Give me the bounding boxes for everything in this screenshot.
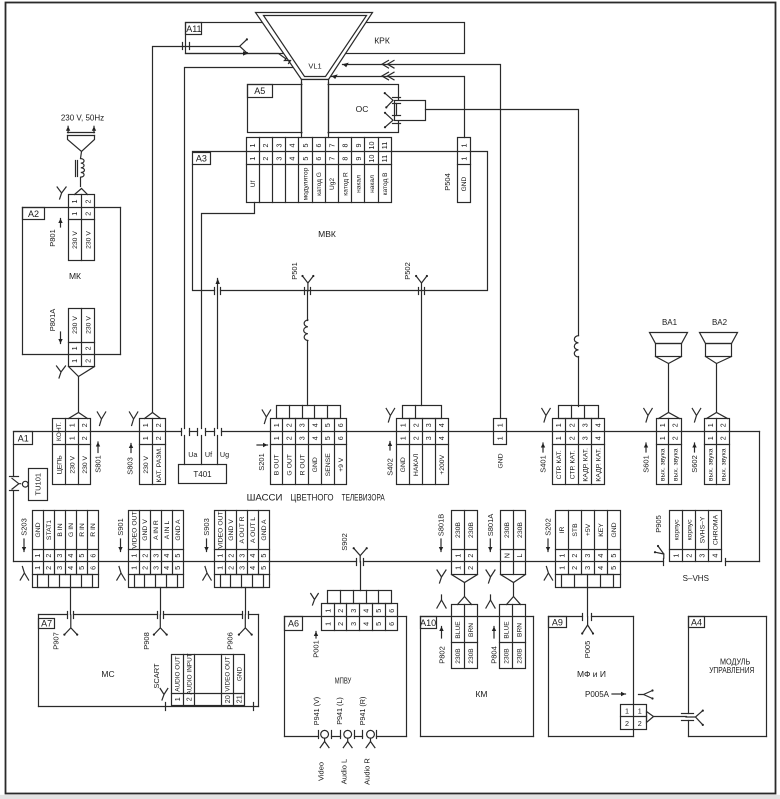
svg-text:G IN: G IN	[68, 523, 75, 537]
svg-text:2: 2	[466, 566, 475, 570]
label P005	[583, 641, 592, 659]
svg-text:5: 5	[301, 144, 310, 148]
svg-text:11: 11	[380, 155, 389, 162]
svg-text:GND: GND	[461, 176, 468, 191]
svg-text:2: 2	[285, 436, 294, 440]
svg-text:СТР. КАТ.: СТР. КАТ.	[569, 450, 576, 479]
S902 feedthrough bars	[357, 559, 364, 566]
svg-text:10: 10	[367, 155, 376, 163]
svg-text:GND V: GND V	[142, 519, 149, 541]
svg-text:VIDEO OUT: VIDEO OUT	[217, 511, 224, 548]
svg-text:1: 1	[272, 436, 281, 440]
connector fork left of S401	[542, 409, 550, 423]
svg-text:1: 1	[453, 554, 462, 558]
label P001 with arrow	[312, 632, 321, 658]
svg-text:4: 4	[248, 554, 257, 558]
svg-text:1: 1	[248, 144, 257, 148]
svg-text:GND: GND	[236, 667, 243, 682]
svg-text:2: 2	[567, 423, 576, 427]
connector fork right of S801	[97, 412, 105, 426]
svg-text:A IN L: A IN L	[164, 521, 171, 540]
merge triangle onto S803	[145, 413, 161, 419]
svg-text:VIDEO OUT: VIDEO OUT	[225, 656, 232, 691]
svg-text:B IN: B IN	[57, 523, 64, 536]
svg-text:4: 4	[362, 609, 371, 613]
svg-text:230В: 230В	[455, 648, 462, 664]
phono jack Audio R	[363, 730, 377, 747]
svg-text:+9 V: +9 V	[338, 457, 345, 472]
svg-text:KEY: KEY	[598, 523, 605, 537]
svg-text:2: 2	[44, 554, 53, 558]
scan strip	[0, 795, 780, 799]
svg-text:TU101: TU101	[34, 473, 43, 496]
connector S801 (mains to chassis)	[53, 419, 91, 485]
svg-text:A3: A3	[196, 153, 207, 163]
svg-text:4: 4	[66, 566, 75, 570]
svg-text:4: 4	[248, 566, 257, 570]
connector fork left of S202	[544, 567, 552, 581]
svg-text:8: 8	[341, 144, 350, 148]
svg-text:GND A: GND A	[261, 519, 268, 541]
svg-text:1: 1	[67, 436, 76, 440]
svg-text:GND: GND	[312, 457, 319, 472]
svg-text:2: 2	[154, 423, 163, 427]
svg-text:1: 1	[557, 554, 566, 558]
wire KPK bottom edge to anode (arrow)	[186, 51, 286, 58]
svg-text:ТЕЛЕВИЗОРА: ТЕЛЕВИЗОРА	[342, 492, 386, 503]
label A2	[23, 208, 45, 220]
svg-text:R OUT: R OUT	[299, 454, 306, 475]
svg-text:AUDIO OUT: AUDIO OUT	[175, 656, 182, 692]
svg-text:BRN: BRN	[468, 623, 475, 637]
wire Ua from anode line down to T401	[185, 68, 293, 465]
connector P802	[452, 605, 478, 669]
svg-text:BA1: BA1	[662, 318, 678, 327]
wire P502 to S402	[421, 291, 423, 406]
svg-text:A6: A6	[288, 619, 299, 629]
svg-text:1: 1	[130, 554, 139, 558]
connector P908 on A7 edge	[153, 612, 168, 636]
svg-text:S203: S203	[20, 518, 29, 536]
svg-text:5: 5	[301, 157, 310, 161]
svg-text:9: 9	[354, 157, 363, 161]
connector S201 (RGB to CRT board)	[271, 406, 347, 485]
svg-text:УПРАВЛЕНИЯ: УПРАВЛЕНИЯ	[709, 666, 754, 675]
label S201 with arrow	[257, 443, 268, 471]
label A4	[689, 617, 705, 628]
label P908	[142, 632, 151, 650]
svg-text:4: 4	[310, 436, 319, 440]
connector fork left of S201	[262, 410, 270, 424]
svg-text:P801: P801	[48, 229, 57, 247]
svg-text:P504: P504	[443, 173, 452, 191]
svg-text:5: 5	[173, 554, 182, 558]
svg-text:1: 1	[33, 554, 42, 558]
connector S602 (speaker BA2)	[705, 419, 730, 485]
fork pair S801A-P804	[486, 570, 495, 608]
svg-text:A OUT L: A OUT L	[250, 517, 257, 543]
svg-text:N: N	[502, 553, 511, 558]
merge triangle onto S801	[69, 413, 88, 419]
svg-text:3: 3	[55, 566, 64, 570]
svg-text:2: 2	[84, 346, 93, 350]
chassis right edge	[759, 432, 761, 562]
svg-text:5: 5	[374, 622, 383, 626]
svg-text:2: 2	[336, 622, 345, 626]
svg-text:S901: S901	[116, 518, 125, 536]
svg-text:2: 2	[285, 423, 294, 427]
wire P501 to S201 with inductor	[307, 291, 309, 406]
svg-text:3: 3	[698, 554, 707, 558]
connector fork at P801	[57, 187, 66, 199]
svg-text:SVHS–Y: SVHS–Y	[700, 516, 707, 543]
svg-text:1: 1	[459, 144, 468, 148]
connector S903 (AV out)	[215, 511, 270, 588]
svg-text:2: 2	[154, 436, 163, 440]
svg-text:1: 1	[706, 436, 715, 440]
svg-text:2: 2	[336, 609, 345, 613]
svg-text:8: 8	[341, 157, 350, 161]
svg-text:230В: 230В	[468, 648, 475, 664]
svg-text:P907: P907	[52, 632, 61, 650]
connector fork at TU101 tap	[12, 478, 21, 489]
wire P005A to A4	[654, 716, 687, 718]
block A9 MF i I (IF module)	[549, 617, 634, 737]
svg-text:КОНТ.: КОНТ.	[56, 422, 63, 441]
yoke connector cluster	[384, 92, 401, 128]
svg-text:1: 1	[248, 157, 257, 161]
connector P001	[322, 604, 398, 631]
svg-text:1: 1	[141, 423, 150, 427]
svg-text:2: 2	[638, 719, 642, 728]
svg-text:1: 1	[398, 436, 407, 440]
svg-text:МФ и И: МФ и И	[577, 670, 606, 679]
svg-text:2: 2	[140, 566, 149, 570]
svg-text:A9: A9	[552, 618, 563, 628]
svg-text:ЦЕПЬ: ЦЕПЬ	[56, 455, 63, 474]
svg-text:3: 3	[237, 566, 246, 570]
svg-text:T401: T401	[193, 470, 212, 479]
svg-text:6: 6	[387, 622, 396, 626]
feedthrough bars A3 bottom edge at Ug	[215, 288, 221, 295]
label P501	[290, 262, 299, 280]
feedthrough bars on KPK left edge	[183, 43, 190, 50]
connector fork inside A4	[686, 710, 704, 727]
svg-text:1: 1	[638, 707, 642, 716]
svg-text:6: 6	[88, 566, 97, 570]
svg-text:корпус: корпус	[687, 519, 694, 541]
svg-text:катод В: катод В	[382, 172, 389, 196]
svg-text:1: 1	[453, 566, 462, 570]
svg-text:2: 2	[261, 144, 270, 148]
block A7 MC (SCART board)	[39, 615, 259, 707]
svg-text:2: 2	[261, 157, 270, 161]
svg-text:P941 (L): P941 (L)	[335, 697, 344, 725]
svg-text:1: 1	[70, 359, 79, 363]
chassis bottom edge	[14, 561, 760, 563]
svg-text:A11: A11	[186, 24, 201, 34]
svg-text:P906: P906	[226, 632, 235, 650]
svg-text:2: 2	[685, 554, 694, 558]
label A11	[186, 23, 202, 35]
svg-text:3: 3	[580, 423, 589, 427]
svg-text:катод G: катод G	[316, 172, 323, 196]
svg-text:230 V: 230 V	[82, 455, 89, 473]
wire yoke to S401 via coil	[426, 110, 579, 407]
mains lead with fuse-choke	[76, 152, 85, 187]
svg-text:4: 4	[66, 554, 75, 558]
svg-text:5: 5	[609, 566, 618, 570]
svg-text:A1: A1	[18, 433, 29, 443]
svg-text:2: 2	[466, 554, 475, 558]
speaker BA2	[700, 318, 738, 412]
wire S801A to P804	[501, 575, 526, 605]
label S803 with arrow	[126, 444, 135, 475]
svg-text:6: 6	[314, 157, 323, 161]
svg-text:3: 3	[151, 554, 160, 558]
svg-text:6: 6	[314, 144, 323, 148]
yoke junction box	[395, 101, 426, 121]
inductor (ferrite bead) on yoke wire	[574, 336, 578, 357]
svg-text:МПВУ: МПВУ	[335, 676, 352, 685]
wire Ug from A3 to T401 (arrow up)	[216, 279, 220, 465]
svg-text:BLUE: BLUE	[455, 621, 462, 639]
label SCART with fork	[152, 663, 168, 700]
label A3	[193, 153, 211, 165]
svg-text:корпус: корпус	[673, 519, 680, 541]
svg-text:модулятор: модулятор	[303, 167, 310, 200]
svg-text:1: 1	[323, 622, 332, 626]
label A1	[14, 432, 33, 445]
bumps S402	[403, 406, 442, 419]
svg-text:4: 4	[437, 436, 446, 440]
label P801 with arrow	[48, 219, 63, 247]
svg-text:КАТ. РАЗМ.: КАТ. РАЗМ.	[156, 447, 163, 482]
svg-text:A7: A7	[41, 619, 52, 629]
connector SCART on A7	[172, 653, 245, 705]
chevron marks	[382, 60, 394, 68]
svg-text:вых. звука: вых. звука	[673, 448, 680, 481]
svg-text:2: 2	[411, 436, 420, 440]
svg-text:1: 1	[459, 157, 468, 161]
svg-text:6: 6	[336, 423, 345, 427]
svg-text:S401: S401	[539, 455, 548, 473]
svg-text:4: 4	[162, 566, 171, 570]
connector P801	[69, 195, 95, 261]
connector GND single pin	[494, 419, 507, 445]
connector fork left of S203	[20, 567, 28, 581]
svg-text:Uf: Uf	[205, 450, 212, 459]
label P504	[443, 173, 452, 191]
svg-text:2: 2	[226, 566, 235, 570]
svg-text:230 V: 230 V	[72, 231, 79, 249]
svg-text:1: 1	[216, 566, 225, 570]
label P906	[226, 632, 235, 650]
svg-text:5: 5	[323, 436, 332, 440]
svg-text:S801В: S801В	[437, 514, 446, 537]
svg-text:GND: GND	[497, 453, 504, 468]
block A3 MVK (video board) outline	[193, 152, 488, 291]
connector fork above P005A table	[639, 689, 654, 699]
label S801A with arrow	[486, 514, 495, 552]
connector P905 (S-VHS output)	[670, 511, 722, 562]
svg-text:4: 4	[288, 157, 297, 161]
block A4 control module	[689, 617, 767, 737]
connector S801B (mains switched)	[452, 511, 478, 575]
svg-text:5: 5	[77, 554, 86, 558]
svg-text:P005A: P005A	[585, 690, 610, 699]
wire S901 to P908	[160, 588, 162, 615]
fork pair S801B-P802	[437, 570, 446, 608]
label S902	[340, 533, 349, 551]
label P802 with arrow	[438, 627, 447, 664]
label S801 with arrow	[94, 442, 103, 473]
svg-text:P941 (R): P941 (R)	[358, 697, 367, 726]
label A7	[39, 619, 55, 629]
svg-text:A IN R: A IN R	[153, 520, 160, 540]
svg-text:3: 3	[237, 554, 246, 558]
label S-VHS	[683, 574, 709, 583]
svg-text:1: 1	[625, 707, 629, 716]
svg-text:4: 4	[288, 144, 297, 148]
svg-text:4: 4	[593, 423, 602, 427]
transformer T401	[179, 465, 227, 484]
svg-text:4: 4	[711, 554, 720, 558]
svg-text:11: 11	[380, 142, 389, 149]
svg-text:МВК: МВК	[318, 229, 336, 239]
svg-text:VL1: VL1	[308, 62, 321, 71]
svg-text:S803: S803	[126, 457, 135, 475]
svg-text:3: 3	[424, 436, 433, 440]
svg-text:21: 21	[235, 695, 244, 703]
svg-text:3: 3	[349, 622, 358, 626]
connector P501 on A3 bottom edge	[301, 275, 314, 295]
svg-text:VIDEO OUT: VIDEO OUT	[131, 511, 138, 548]
svg-text:230 V, 50Hz: 230 V, 50Hz	[61, 114, 104, 123]
svg-text:1: 1	[706, 423, 715, 427]
svg-text:1: 1	[141, 436, 150, 440]
svg-text:P005: P005	[583, 641, 592, 659]
wire P801A to S801	[69, 367, 95, 412]
label S801B with arrow	[437, 514, 446, 552]
svg-text:P941 (V): P941 (V)	[312, 697, 321, 725]
svg-text:1: 1	[658, 436, 667, 440]
svg-text:2: 2	[567, 436, 576, 440]
svg-text:5: 5	[374, 609, 383, 613]
svg-text:Uf: Uf	[250, 181, 257, 188]
svg-text:P802: P802	[438, 646, 447, 664]
svg-text:STB: STB	[572, 523, 579, 537]
label P801A with arrow	[48, 309, 63, 344]
label A10	[420, 617, 436, 629]
connector P005 on A9 edge	[581, 614, 594, 635]
connector S803	[140, 419, 166, 485]
node labels Ua Uf Ug	[188, 450, 229, 459]
svg-text:7: 7	[327, 157, 336, 161]
svg-text:1: 1	[557, 566, 566, 570]
svg-text:5: 5	[259, 554, 268, 558]
label S202 with arrow	[544, 518, 553, 551]
svg-text:2: 2	[719, 436, 728, 440]
label P905 with fork	[654, 515, 664, 558]
connector S601 (speaker BA1)	[657, 419, 682, 485]
connector S902 (to front AV board)	[353, 547, 368, 590]
svg-text:1: 1	[67, 423, 76, 427]
merge triangle into P801	[75, 189, 88, 195]
anode contact zigzag on funnel	[285, 59, 291, 64]
svg-text:P501: P501	[290, 262, 299, 280]
label S602 with arrow	[690, 443, 699, 473]
svg-text:4: 4	[596, 566, 605, 570]
svg-text:2: 2	[671, 436, 680, 440]
svg-text:1: 1	[496, 436, 505, 440]
label S402 with arrow	[386, 442, 395, 476]
label P005A with arrow	[585, 690, 626, 699]
connector S202 (control bus)	[556, 511, 621, 588]
svg-text:накал: накал	[369, 175, 376, 193]
svg-text:GND: GND	[400, 457, 407, 472]
label A5	[248, 85, 273, 98]
svg-text:4: 4	[362, 622, 371, 626]
label VL1	[308, 62, 321, 71]
svg-text:BA2: BA2	[712, 318, 728, 327]
mains plug 230V 50Hz	[61, 114, 104, 152]
connector S901 (AV in)	[129, 511, 184, 588]
svg-text:S201: S201	[257, 453, 266, 471]
connector fork left of S402	[386, 409, 394, 423]
connector S401 (deflection)	[553, 406, 605, 485]
svg-text:вых. звука: вых. звука	[660, 448, 667, 481]
svg-text:Audio L: Audio L	[340, 759, 349, 784]
svg-text:КАДР. КАТ.: КАДР. КАТ.	[595, 448, 602, 482]
merge triangle onto S602	[707, 413, 728, 419]
svg-text:S202: S202	[544, 518, 553, 536]
svg-text:МОДУЛЬ: МОДУЛЬ	[720, 658, 750, 667]
connector P907 on A7 edge	[63, 612, 78, 636]
svg-text:230В: 230В	[517, 648, 524, 664]
svg-text:BRN: BRN	[517, 623, 524, 637]
connector fork left of S601	[644, 409, 652, 423]
svg-text:S–VHS: S–VHS	[683, 574, 709, 583]
svg-text:2: 2	[570, 554, 579, 558]
svg-text:230 V: 230 V	[72, 316, 79, 334]
svg-text:1: 1	[496, 423, 505, 427]
svg-text:2: 2	[84, 359, 93, 363]
connector fork at KPK internal wire	[240, 38, 248, 54]
connector fork left of S901	[117, 567, 125, 581]
connector P502 on A3 bottom edge	[415, 275, 428, 295]
wire S801B to P802 (merge diverge)	[452, 575, 478, 605]
block A10 KM (degauss/posistor)	[421, 617, 534, 737]
svg-text:P001: P001	[312, 640, 321, 658]
svg-text:B OUT: B OUT	[274, 454, 281, 475]
svg-text:IR: IR	[559, 527, 566, 534]
svg-text:9: 9	[354, 144, 363, 148]
svg-text:230В: 230В	[504, 648, 511, 664]
label S903 with arrow	[202, 518, 211, 551]
labels P941	[312, 697, 367, 726]
connector P801A	[69, 309, 95, 367]
svg-text:P905: P905	[654, 515, 663, 533]
block A2 MK (power module)	[23, 208, 121, 355]
svg-text:CHROMA: CHROMA	[713, 514, 720, 545]
svg-text:Ug: Ug	[220, 450, 229, 459]
block A6 MPVU (front AV unit)	[285, 617, 407, 737]
wire Uf from A3 strip to T401	[202, 203, 255, 465]
label A9	[549, 617, 567, 628]
svg-text:4: 4	[596, 554, 605, 558]
svg-text:S902: S902	[340, 533, 349, 551]
